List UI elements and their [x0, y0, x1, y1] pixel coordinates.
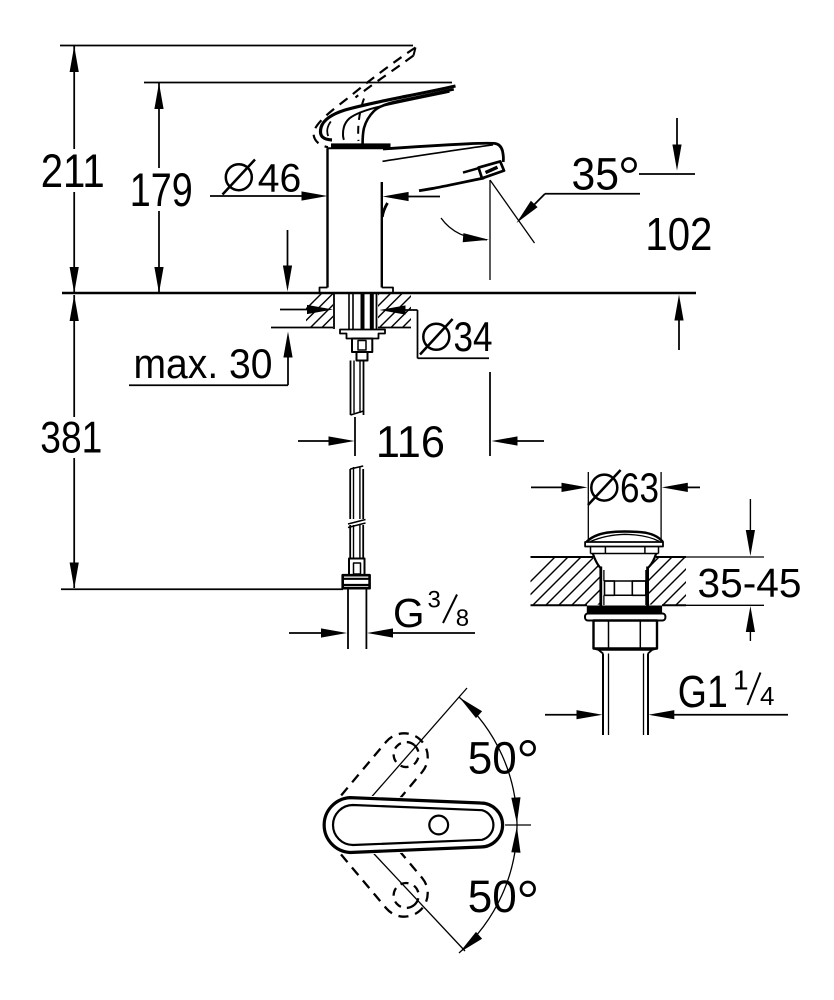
- svg-text:35: 35: [572, 148, 620, 199]
- svg-text:G: G: [393, 590, 425, 636]
- svg-text:46: 46: [258, 156, 302, 200]
- svg-text:50: 50: [468, 733, 517, 784]
- svg-text:102: 102: [645, 208, 712, 260]
- svg-text:4: 4: [760, 681, 774, 711]
- svg-text:211: 211: [41, 144, 105, 197]
- svg-text:63: 63: [620, 464, 659, 511]
- svg-text:8: 8: [456, 605, 469, 632]
- svg-text:50: 50: [468, 871, 517, 922]
- svg-text:G1: G1: [678, 666, 728, 717]
- svg-text:35-45: 35-45: [698, 560, 802, 606]
- svg-text:381: 381: [40, 414, 102, 463]
- svg-text:116: 116: [376, 418, 445, 467]
- svg-text:34: 34: [454, 313, 493, 360]
- svg-text:max. 30: max. 30: [134, 340, 273, 387]
- svg-text:3: 3: [428, 587, 441, 614]
- svg-text:1: 1: [733, 664, 749, 695]
- svg-text:179: 179: [130, 163, 193, 216]
